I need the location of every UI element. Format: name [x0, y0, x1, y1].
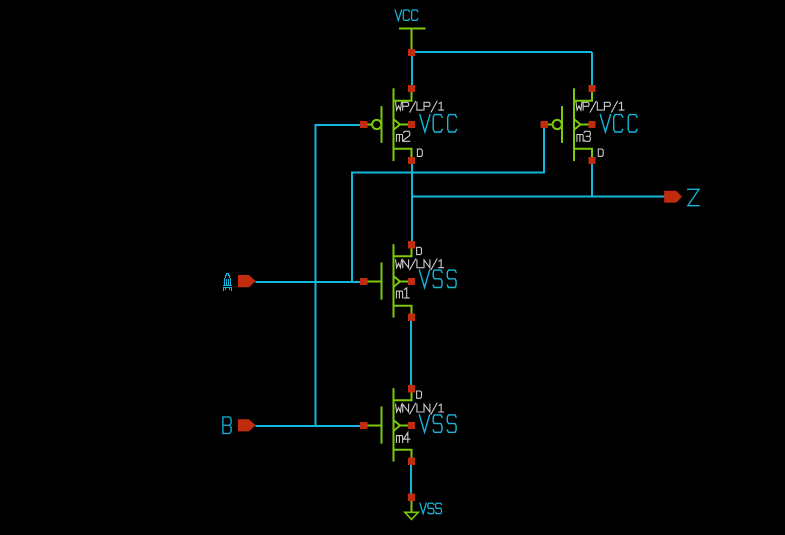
wire m3 gate drop: [543, 128, 545, 174]
pin A (input export): [238, 275, 256, 287]
label A: [223, 273, 232, 291]
node VSS port: [408, 494, 415, 501]
wire net B vertical: [315, 125, 317, 426]
power symbol VCC: [399, 29, 426, 50]
wire m2 drain to m1 drain trunk: [411, 164, 413, 243]
label B: [223, 417, 231, 434]
ground symbol VSS: [405, 501, 418, 520]
name label m2: [396, 131, 409, 141]
wire net A vertical: [351, 173, 353, 283]
bulk label VSS (m4): [419, 415, 429, 432]
value label WP/LP/1 (m3): [576, 101, 624, 112]
label Z: [688, 189, 699, 205]
pin label D (m4): [417, 391, 422, 398]
value label WN/LN/1 (m1): [396, 259, 444, 270]
wire m2 gate horizontal: [315, 124, 361, 126]
pin label D (m2): [417, 149, 422, 156]
name label m3: [577, 131, 590, 141]
bulk label VSS (m1): [419, 270, 429, 287]
pin label D (m3): [598, 149, 603, 156]
wire m1 source to m4 drain: [410, 321, 412, 387]
pin label D (m1): [417, 247, 422, 254]
label VSS (ground): [420, 503, 426, 513]
transistor m2 (PMOS): [360, 85, 415, 164]
value label WP/LP/1 (m2): [396, 101, 444, 112]
bulk label VCC (m2): [420, 115, 430, 132]
wire m3 drain to Z: [591, 164, 593, 197]
wire VCC rail horizontal: [411, 51, 592, 53]
pin B (input export): [238, 419, 256, 431]
label VCC (power): [395, 10, 402, 20]
wire input A horizontal: [256, 281, 361, 283]
transistor m3 (PMOS): [541, 85, 596, 164]
wire VCC to m2 source: [411, 55, 413, 86]
value label WN/LN/1 (m4): [396, 403, 444, 414]
transistor m4 (NMOS): [360, 385, 415, 465]
name label m1: [396, 288, 409, 298]
transistor m1 (NMOS): [360, 241, 415, 321]
wire m4 source to VSS: [410, 465, 412, 495]
wire input B horizontal: [256, 425, 361, 427]
bulk label VCC (m3): [600, 115, 610, 132]
wire output Z horizontal: [412, 196, 665, 198]
wire m3 source drop: [591, 52, 593, 85]
name label m4: [396, 432, 410, 442]
node VCC junction port: [408, 49, 415, 56]
wire net A horizontal to m3 gate: [351, 172, 545, 174]
pin Z (output export): [664, 191, 682, 203]
